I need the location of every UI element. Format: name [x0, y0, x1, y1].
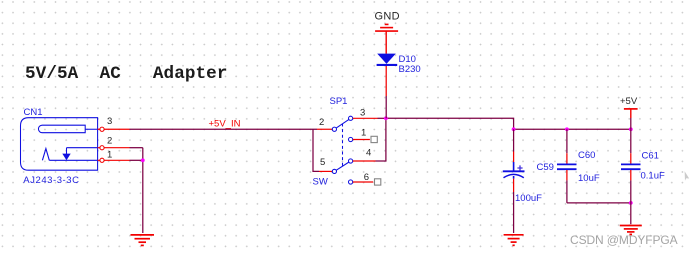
- svg-text:C59: C59: [537, 162, 554, 173]
- connector CN1 barrel lead to pin 3: [85, 128, 97, 130]
- wire node to C59 corner: [386, 118, 514, 129]
- wire bus down to C59: [513, 129, 515, 162]
- wire C59 to ground: [513, 179, 515, 233]
- capacitor C61: [621, 164, 641, 169]
- junction node at diode: [384, 116, 388, 120]
- connector CN1 spring contact: [42, 149, 49, 161]
- junction CN1 pin1 node: [141, 158, 145, 162]
- svg-text:1: 1: [361, 127, 366, 138]
- wire switch pin3 to node: [378, 117, 386, 119]
- switch SP1 mechanical link (dashed): [342, 124, 344, 167]
- connector CN1 pin 3: [98, 127, 130, 131]
- ground symbol below C59: [504, 235, 524, 246]
- switch SP1 pin 4: [349, 159, 376, 163]
- switch SP1 arm pole A: [334, 118, 350, 129]
- wire CN1 pin2 to ground column: [130, 147, 143, 149]
- wire bottom bus C60 to C61: [567, 202, 631, 204]
- svg-text:3: 3: [360, 108, 365, 119]
- diode D10: [377, 54, 398, 66]
- wire branch down to switch pin5: [313, 129, 319, 171]
- connector CN1 pin2 internal lead: [67, 147, 98, 149]
- svg-text:6: 6: [364, 172, 369, 183]
- wire bus down to C60: [566, 129, 568, 163]
- svg-text:AJ243-3-3C: AJ243-3-3C: [23, 175, 79, 186]
- svg-text:10uF: 10uF: [578, 173, 600, 184]
- connector CN1 pin 2: [98, 146, 130, 150]
- connector CN1 barrel contact: [38, 125, 85, 133]
- title text: [25, 64, 228, 84]
- svg-text:CSDN @MDYFPGA: CSDN @MDYFPGA: [570, 233, 678, 247]
- connector CN1 internal switch arrow: [62, 148, 70, 161]
- svg-text:1: 1: [107, 150, 112, 161]
- wire switch pin4 riser to node: [376, 118, 386, 161]
- capacitor C60: [557, 164, 577, 169]
- junction at C59 top: [512, 127, 516, 131]
- svg-text:+5V: +5V: [620, 96, 638, 107]
- ground symbol below C61: [620, 226, 642, 235]
- svg-text:100uF: 100uF: [515, 193, 542, 204]
- svg-text:GND: GND: [375, 11, 400, 23]
- power port GND symbol (top): [375, 24, 398, 53]
- wire ground column down: [142, 148, 144, 233]
- wire C61 down to ground: [630, 170, 632, 224]
- svg-text:4: 4: [366, 148, 371, 159]
- svg-text:5: 5: [320, 157, 325, 168]
- wire C60 down to bottom bus: [566, 170, 568, 203]
- switch SP1 pin 3: [349, 116, 378, 120]
- svg-text:C61: C61: [642, 150, 659, 161]
- svg-text:SW: SW: [313, 177, 328, 188]
- junction at C60 top: [565, 127, 569, 131]
- power port +5V bar symbol: [624, 109, 638, 118]
- svg-text:0.1uF: 0.1uF: [641, 171, 665, 182]
- switch SP1 pin 1 (no connect): [349, 136, 378, 142]
- switch SP1 pin 5: [319, 169, 337, 173]
- wire +5V stub to bus: [630, 118, 632, 129]
- wire lower bus C59 to C61: [514, 128, 631, 130]
- svg-text:C60: C60: [578, 150, 595, 161]
- svg-text:SP1: SP1: [330, 96, 348, 107]
- ground symbol below CN1: [131, 235, 155, 246]
- junction at C61 / +5V: [629, 127, 633, 131]
- svg-text:CN1: CN1: [24, 107, 43, 118]
- wire +5V_IN net: CN1 pin3 to switch pin2: [130, 128, 318, 130]
- connector CN1 pin1 internal lead: [49, 159, 97, 161]
- wire diode cathode down to node: [385, 66, 387, 118]
- svg-text:+5V_IN: +5V_IN: [209, 119, 241, 130]
- connector CN1 pin 1: [98, 158, 130, 162]
- svg-text:3: 3: [107, 116, 112, 127]
- svg-text:B230: B230: [399, 64, 421, 75]
- capacitor C59 (electrolytic): [503, 162, 525, 179]
- svg-text:2: 2: [107, 136, 112, 147]
- connector CN1 body: [21, 118, 98, 171]
- wire CN1 pin1 to ground column: [130, 159, 143, 161]
- svg-text:2: 2: [319, 117, 324, 128]
- switch SP1 pin 6 (no connect): [349, 179, 381, 185]
- mouse cursor: [685, 171, 690, 180]
- switch SP1 arm pole B: [334, 161, 350, 171]
- junction at C61 bottom: [629, 201, 633, 205]
- wire bus down to C61: [630, 129, 632, 163]
- switch SP1 pin 2: [317, 127, 337, 131]
